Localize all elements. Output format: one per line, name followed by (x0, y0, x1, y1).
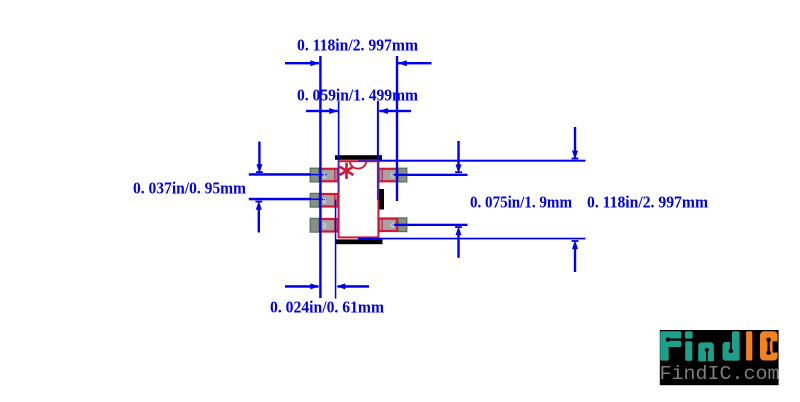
IC body outline (339, 161, 379, 237)
svg-text:0. 037in/0. 95mm: 0. 037in/0. 95mm (133, 179, 246, 198)
svg-text:1: 1 (322, 171, 326, 180)
logo letter I (746, 331, 752, 360)
pin4 center line L12 (393, 224, 468, 226)
purple overlap V3 lower (338, 160, 340, 193)
logo letter F (660, 331, 681, 360)
body right black bar (379, 189, 384, 210)
pin number 2 (322, 196, 326, 205)
purple overlap V4 lower (377, 160, 379, 200)
dim line L8 with left arrow (338, 285, 369, 288)
svg-text:FindIC.com: FindIC.com (660, 363, 780, 385)
pin 4 pad (379, 219, 397, 232)
FindIC.com caption (660, 363, 780, 385)
body bottom black bar (336, 239, 383, 244)
extension line V2 x=397 (396, 56, 398, 201)
extension line V1 x=320 (319, 56, 321, 298)
pin number 5 (390, 171, 394, 180)
pin 5 pad (379, 169, 397, 182)
dim line L7 with right arrow (285, 285, 319, 288)
extension line V3 x=338.5 upper (338, 101, 340, 160)
dim line L4 with left arrow (379, 110, 411, 112)
logo letter n (698, 342, 714, 361)
pad P2 land (green) (310, 193, 319, 207)
purple overlap L9 over body top (358, 160, 379, 162)
arrow V6 up (258, 207, 260, 233)
logo letter C (760, 331, 778, 360)
svg-text:5: 5 (390, 171, 394, 180)
svg-text:2: 2 (322, 196, 326, 205)
body bottom extension line L10 (358, 238, 586, 240)
logo F via dot (666, 337, 670, 341)
pin 1 marker asterisk (341, 164, 352, 178)
body top black bar (335, 155, 382, 160)
dim line L3 with right arrow (306, 110, 338, 112)
pin5 center line L11 (393, 174, 468, 176)
svg-text:3: 3 (322, 221, 326, 230)
arrow V5 down (258, 142, 260, 168)
FindIC logo background (660, 330, 779, 385)
svg-text:0. 024in/0. 61mm: 0. 024in/0. 61mm (270, 297, 384, 316)
arrow V11 up (574, 246, 576, 272)
pin number 3 (322, 221, 326, 230)
logo letter i (685, 331, 693, 361)
logo letter d (723, 331, 740, 360)
svg-text:0. 059in/1. 499mm: 0. 059in/1. 499mm (297, 86, 418, 105)
arrow V9 up (457, 233, 459, 258)
pin 3 pad (320, 219, 338, 232)
pin 1 orientation arc (350, 162, 366, 169)
body top extension line L9 (379, 160, 586, 162)
dim line L2 with left arrow (398, 62, 432, 64)
pad P1 land (green) (310, 168, 319, 182)
svg-text:0. 075in/1. 9mm: 0. 075in/1. 9mm (470, 192, 572, 211)
pad P3 land (green) (310, 218, 319, 232)
pin1 center line L5 (249, 173, 311, 176)
arrow V10 down (574, 127, 576, 154)
pad P4 land (green) (398, 218, 407, 232)
pin number 4 (390, 221, 395, 230)
arrow V8 down (457, 141, 459, 168)
pin 1 pad (320, 169, 338, 182)
svg-text:0. 118in/2. 997mm: 0. 118in/2. 997mm (297, 36, 418, 55)
extension line V4 x=378 upper (377, 101, 379, 160)
svg-text:0. 118in/2. 997mm: 0. 118in/2. 997mm (587, 192, 708, 211)
pin2 center line L6 (249, 198, 311, 201)
dim line L1 with right arrow (285, 62, 319, 64)
pin number 1 (322, 171, 326, 180)
extension line V7 x=335.4 lower (335, 200, 337, 299)
pin 2 pad (320, 194, 338, 207)
pad P5 land (green) (398, 168, 407, 182)
